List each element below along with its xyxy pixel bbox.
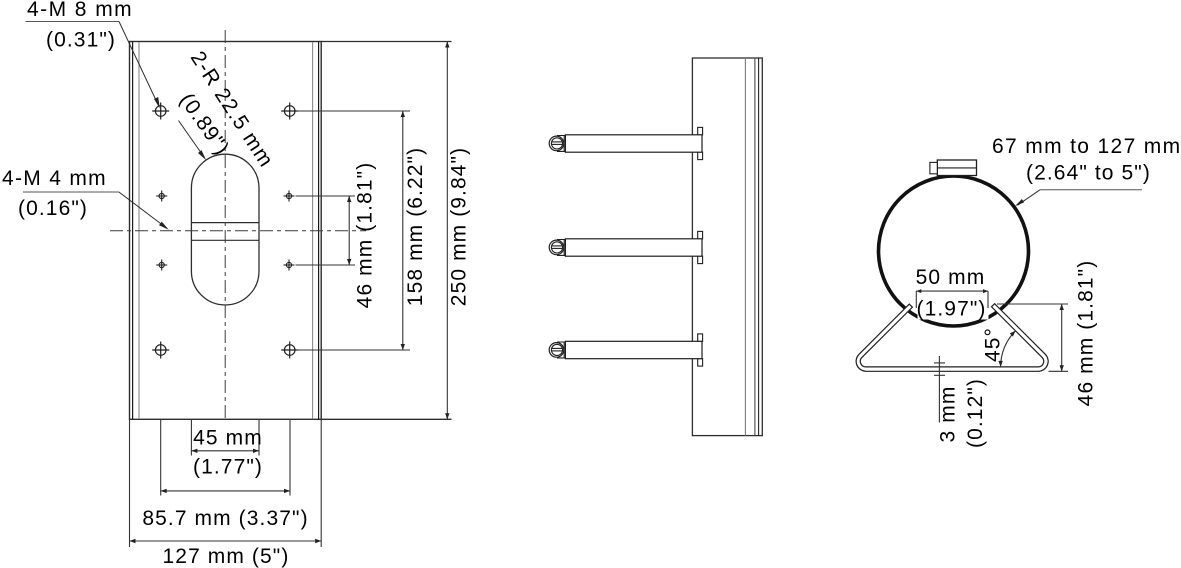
ext line hole right down <box>289 419 291 495</box>
arrow 45mm right <box>253 449 259 453</box>
arrow 85.7mm right <box>284 489 290 493</box>
hole M4 upper-right <box>284 191 295 202</box>
screw 1 slot <box>552 141 563 143</box>
svg-text:3 mm: 3 mm <box>937 386 960 443</box>
halo for (1.97") <box>918 296 989 320</box>
ext line from upper-right M4 hole <box>296 195 356 197</box>
plate right inner edge line <box>318 42 320 420</box>
hole M4 lower-left <box>156 260 167 271</box>
arrow 127mm left <box>130 539 136 543</box>
arrow 46 clamp top <box>1059 304 1063 310</box>
svg-text:4-M 4 mm: 4-M 4 mm <box>2 167 107 190</box>
screw 1 tabs <box>698 127 703 134</box>
dim line 127mm <box>130 540 322 542</box>
leader 4-M 8 mm <box>26 22 159 106</box>
screw 3 <box>549 334 702 366</box>
hole M8 top-left <box>152 103 169 120</box>
svg-text:85.7 mm (3.37"): 85.7 mm (3.37") <box>142 507 308 530</box>
dim line 45mm <box>191 450 259 452</box>
plate left inner edge line <box>132 42 134 420</box>
svg-text:45 mm: 45 mm <box>193 427 263 450</box>
ext line slot left down <box>190 419 192 455</box>
plate outline front view <box>130 42 322 420</box>
slot cross line upper <box>191 222 259 224</box>
3mm leader <box>934 356 945 423</box>
top edge extension to 250mm dim <box>321 41 451 43</box>
screw 1 neck cap <box>557 136 565 152</box>
dim line 85.7mm <box>161 490 290 492</box>
plate side body <box>692 58 762 436</box>
ext line plate left down <box>129 419 131 547</box>
hole M8 bottom-right <box>281 342 298 359</box>
svg-text:(0.12"): (0.12") <box>964 378 987 448</box>
pole bracket band <box>856 304 1048 372</box>
ext line from lower-right M4 hole <box>296 264 356 266</box>
leader 2-R 22.5 <box>179 121 205 158</box>
svg-text:(0.31"): (0.31") <box>46 29 116 52</box>
screw 1 head inner <box>551 138 562 149</box>
arrow 50mm left <box>916 289 921 293</box>
center slot (obround) <box>191 154 259 305</box>
arrow 45deg <box>1010 331 1016 337</box>
ext line plate right down <box>320 419 322 547</box>
dim line 158mm vertical <box>402 111 404 350</box>
hole M8 top-right <box>281 103 298 120</box>
45 degree arc <box>1001 331 1016 367</box>
svg-text:158 mm (6.22"): 158 mm (6.22") <box>404 147 427 306</box>
svg-text:46 mm (1.81"): 46 mm (1.81") <box>1075 260 1098 407</box>
svg-text:4-M 8 mm: 4-M 8 mm <box>27 0 133 21</box>
arrow 158mm bottom <box>401 344 405 350</box>
arrow 158mm top <box>401 111 405 117</box>
ext line from bottom-right M8 hole <box>297 349 411 351</box>
ext line slot right down <box>258 419 260 455</box>
arrow 46mm bottom <box>347 259 351 265</box>
slot cross line lower <box>191 239 259 241</box>
bottom edge extension to 250mm dim <box>321 418 451 420</box>
svg-text:46 mm (1.81"): 46 mm (1.81") <box>354 162 377 309</box>
screw 1 head outer <box>549 136 564 151</box>
dim line 250mm vertical <box>446 42 448 420</box>
ext bottom <box>1049 370 1069 372</box>
dim line <box>1061 304 1063 371</box>
screw 1 <box>549 127 702 159</box>
ext top from right tip <box>997 303 1068 305</box>
ext line from top-right M8 hole <box>297 110 411 112</box>
clamp circle <box>879 176 1029 326</box>
side fold line 1 <box>744 58 746 436</box>
svg-text:(1.97"): (1.97") <box>916 298 986 321</box>
arrow 46mm top <box>347 196 351 202</box>
plate right fold line <box>312 42 314 419</box>
side fold line 3 <box>758 58 760 436</box>
arrow 85.7mm left <box>161 489 167 493</box>
side fold line 2 <box>754 58 756 436</box>
ext line hole left down <box>160 419 162 495</box>
screw 1 shaft <box>565 135 702 152</box>
leader 67-127 <box>1018 190 1143 205</box>
screw 2 <box>549 231 702 263</box>
svg-text:250 mm (9.84"): 250 mm (9.84") <box>448 147 471 306</box>
arrow 250mm top <box>445 42 449 48</box>
vertical centerline <box>224 30 226 419</box>
svg-text:(0.16"): (0.16") <box>18 197 88 220</box>
hole M4 upper-left <box>156 191 167 202</box>
dim line 46mm vertical <box>348 196 350 265</box>
svg-text:127 mm (5"): 127 mm (5") <box>163 545 290 568</box>
plate left fold line <box>138 42 140 419</box>
leader arrow 2-R 22.5 <box>198 150 206 160</box>
svg-text:45°: 45° <box>982 327 1005 362</box>
leader 4-M 4 mm <box>23 192 167 228</box>
svg-text:(2.64" to 5"): (2.64" to 5") <box>1026 162 1151 185</box>
arrow 50mm right <box>983 289 988 293</box>
leader arrow 67-127 <box>1015 199 1024 206</box>
arrow 127mm right <box>315 539 321 543</box>
arrow 45mm left <box>191 449 197 453</box>
arrow 250mm bottom <box>445 413 449 419</box>
hole M4 lower-right <box>284 260 295 271</box>
50mm dim <box>916 291 988 308</box>
hole M8 bottom-left <box>152 342 169 359</box>
svg-text:50 mm: 50 mm <box>916 266 986 289</box>
46mm clamp dim <box>997 304 1068 371</box>
arrow 46 clamp bottom <box>1059 365 1063 371</box>
svg-text:(1.77"): (1.77") <box>193 456 263 479</box>
horizontal centerline <box>110 230 366 232</box>
svg-text:67 mm to 127 mm: 67 mm to 127 mm <box>992 135 1181 158</box>
leader arrow 4-M 8 mm <box>154 97 160 108</box>
worm gear housing <box>930 160 977 176</box>
arrow 45deg bottom <box>998 361 1002 367</box>
leader arrow 4-M 4 mm <box>159 222 169 230</box>
